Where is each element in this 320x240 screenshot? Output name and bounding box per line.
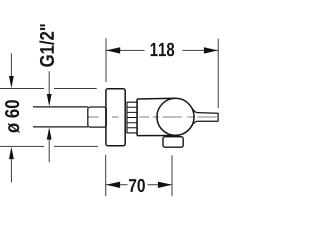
dim 70: left extension line bbox=[105, 155, 107, 196]
spout with root fillets bbox=[192, 108, 219, 127]
dim o60: label "&#248; 60" (rotated) bbox=[5, 100, 20, 133]
escutcheon wall plate bbox=[106, 89, 125, 146]
supply pipe bottom line bbox=[33, 126, 88, 128]
mixer ball (circle) bbox=[157, 98, 194, 135]
dim G1/2: lower leader arrowhead (up) bbox=[47, 127, 52, 139]
dim 70: right extension line bbox=[171, 155, 173, 196]
supply pipe top line bbox=[33, 106, 88, 108]
dim 70: left arrowhead bbox=[106, 182, 120, 188]
dim o60: upper dimension line bbox=[10, 53, 12, 76]
dim 70: label "70" bbox=[129, 179, 145, 192]
dim o60: upper arrowhead (down) bbox=[9, 76, 14, 88]
hose outlet below ball bbox=[163, 137, 183, 148]
dim G1/2: lower leader line bbox=[48, 139, 50, 163]
centerline (dash-dot axis of mixer) bbox=[89, 116, 217, 118]
dim 118: dimension line bbox=[106, 49, 217, 51]
dim 70: dimension line bbox=[106, 184, 172, 186]
dim G1/2: upper leader line bbox=[48, 71, 50, 95]
dim 118: left extension line bbox=[105, 38, 107, 82]
dim G1/2: upper leader arrowhead (down) bbox=[47, 94, 52, 106]
dim 118: label "118" bbox=[151, 43, 175, 57]
body cone from union to ball bbox=[137, 98, 175, 135]
dim o60: bottom extension line bbox=[0, 145, 98, 147]
dim 70: right arrowhead bbox=[158, 182, 172, 188]
dim o60: top extension line bbox=[0, 88, 97, 90]
dim o60: lower arrowhead (up) bbox=[9, 147, 14, 159]
dim G1/2: label "G1/2&quot;" (rotated) bbox=[39, 24, 54, 66]
dim o60: lower dimension line bbox=[10, 158, 12, 182]
dim 118: right extension line bbox=[217, 39, 219, 108]
dim 118: left arrowhead bbox=[106, 47, 120, 53]
dim 118: right arrowhead bbox=[204, 47, 218, 53]
ribbed union block bbox=[127, 102, 137, 133]
union nut behind escutcheon bbox=[88, 107, 107, 127]
